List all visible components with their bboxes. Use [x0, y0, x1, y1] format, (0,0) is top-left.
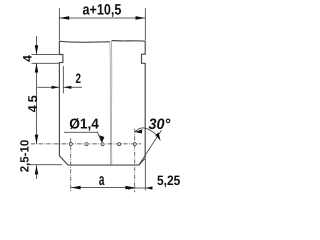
svg-text:Ø1,4: Ø1,4	[69, 117, 99, 133]
svg-text:a+10,5: a+10,5	[82, 2, 121, 19]
svg-text:2: 2	[76, 71, 82, 86]
svg-text:30°: 30°	[149, 116, 172, 133]
svg-text:a: a	[99, 170, 105, 189]
svg-text:4: 4	[21, 55, 35, 62]
svg-text:2,5-10: 2,5-10	[17, 139, 31, 172]
svg-text:5,25: 5,25	[157, 173, 181, 188]
